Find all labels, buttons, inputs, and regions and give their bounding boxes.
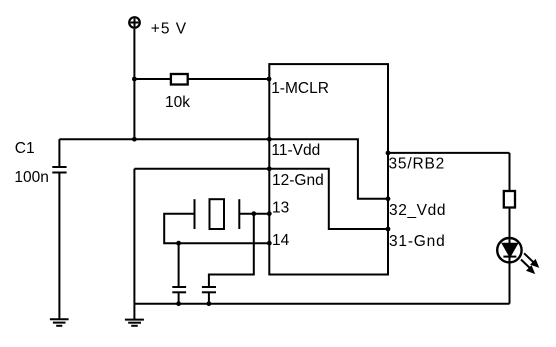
wire C2 to ground bus	[178, 292, 180, 303]
junction Vdd node	[132, 137, 137, 142]
pin 1 junction	[267, 77, 272, 82]
wire +5V tap down to Vdd node	[133, 79, 135, 139]
+5V supply symbol	[129, 17, 140, 28]
pin 14 junction	[267, 241, 272, 246]
wire R2 to LED	[509, 208, 511, 239]
LED emission arrow 2	[521, 260, 535, 275]
pin 11 junction	[267, 137, 272, 142]
junction C2/bus	[176, 301, 181, 306]
svg-text:100n: 100n	[14, 169, 48, 186]
capacitor C2	[172, 287, 186, 292]
wire C1 bottom lead to ground	[58, 173, 60, 320]
microcontroller U1 body	[269, 64, 388, 274]
ground bus wire	[134, 303, 509, 305]
pin 13 junction	[267, 211, 272, 216]
wire C3 to ground bus	[208, 292, 210, 303]
wire tap to resistor R1 left	[134, 78, 170, 80]
pin 12 junction	[267, 166, 272, 171]
wire down to resistor R2	[509, 153, 511, 191]
svg-text:10k: 10k	[165, 94, 190, 111]
wire pin 35/RB2 to LED branch	[388, 152, 510, 154]
svg-text:14: 14	[272, 232, 290, 249]
wire Gnd rail pin 12 to ground column	[134, 168, 269, 170]
LED D1	[497, 238, 521, 304]
pin 31 junction	[386, 227, 391, 232]
capacitor C3	[202, 287, 216, 292]
wire ground column down	[133, 169, 135, 320]
wire Vdd rail to pin 11-Vdd	[134, 138, 269, 140]
svg-text:31-Gnd: 31-Gnd	[389, 233, 446, 250]
svg-text:C1: C1	[15, 140, 35, 157]
ground (main)	[125, 320, 144, 326]
wire C1 top lead	[58, 139, 60, 167]
resistor 10k	[171, 74, 188, 85]
junction crystal/C3	[251, 211, 256, 216]
svg-text:32_Vdd: 32_Vdd	[389, 202, 446, 219]
ground (C1)	[50, 319, 69, 326]
wire node to load cap C3	[209, 214, 254, 287]
junction C3/bus	[207, 301, 212, 306]
wire resistor to pin 1-MCLR	[188, 78, 270, 80]
junction +5V/resistor tap	[132, 77, 137, 82]
crystal X1	[195, 199, 240, 229]
wire +5V down to resistor tap	[133, 29, 135, 79]
junction crystal/C2	[176, 241, 181, 246]
pin 35 junction	[386, 151, 391, 156]
svg-text:13: 13	[272, 200, 289, 217]
wire node to load cap C2	[178, 243, 180, 287]
svg-text:+5 V: +5 V	[151, 20, 187, 37]
internal Gnd wire pin 12 to pin 31	[269, 169, 388, 229]
wire Vdd rail to C1	[59, 138, 134, 140]
resistor R2	[504, 191, 515, 208]
svg-text:1-MCLR: 1-MCLR	[271, 80, 329, 97]
wire crystal left plate to pin 14	[164, 214, 269, 244]
internal Vdd wire pin 11 to pin 32	[269, 139, 388, 199]
svg-text:12-Gnd: 12-Gnd	[272, 172, 324, 189]
wire crystal right plate to pin 13	[239, 213, 269, 215]
capacitor C1 100n	[52, 167, 66, 173]
pin 32 junction	[386, 196, 391, 201]
svg-text:35/RB2: 35/RB2	[389, 156, 446, 173]
LED emission arrow 1	[524, 253, 539, 268]
svg-text:11-Vdd: 11-Vdd	[271, 142, 320, 159]
